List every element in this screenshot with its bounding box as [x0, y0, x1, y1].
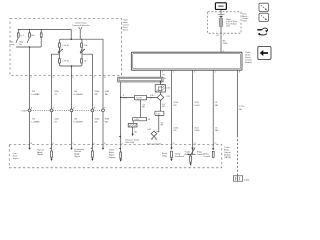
resistor: pot right upper 10k — [81, 43, 83, 47]
terminal arrow W2 — [50, 147, 52, 149]
svg-text:C: C — [94, 77, 96, 79]
wire: box top feed going right then down W5 — [81, 39, 103, 148]
resistor on W2 — [51, 148, 53, 151]
svg-text:2: 2 — [215, 72, 216, 74]
wire branch from X1 down — [140, 100, 142, 117]
wire W1 from switch down — [29, 47, 31, 148]
lamp L2 — [29, 33, 31, 37]
svg-text:5: 5 — [162, 71, 164, 73]
svg-text:D: D — [73, 108, 75, 110]
ground arrow W4 — [91, 157, 93, 158]
svg-text:Wire Coil): Wire Coil) — [125, 142, 134, 144]
wire: left wiper out of box to W2 — [52, 54, 60, 148]
svg-text:D-BU: D-BU — [195, 105, 200, 107]
dashed box: trailer brake controller module — [9, 145, 222, 168]
svg-text:G-301: G-301 — [244, 179, 250, 181]
label: pin 5 / IN / 40 — [162, 71, 167, 80]
svg-text:GY: GY — [54, 94, 58, 96]
terminal arrow W4 — [90, 147, 92, 149]
wire down from S1 — [160, 100, 162, 111]
label: TBCM — [224, 147, 231, 159]
inline connector X120 dotted row — [27, 109, 105, 112]
label: Interior Lamps Dimming Subfunction — [73, 21, 90, 27]
label: wire codes lower band left wires — [32, 119, 110, 124]
fuse F1 (gray body) — [220, 17, 222, 18]
dashed box: trailer brake control panel switch enclosure — [10, 19, 121, 76]
battery plates symbol — [218, 13, 225, 15]
svg-text:(+ 4: (+ 4 — [20, 35, 23, 37]
label: relay feedback — [162, 152, 191, 158]
ground arrow W7 — [170, 159, 172, 161]
svg-text:B: B — [104, 77, 106, 79]
svg-text:(4 b: (4 b — [31, 35, 34, 37]
svg-text:F: F — [31, 77, 33, 79]
label: trailer brake control panel switch — [123, 19, 129, 31]
svg-text:X120: X120 — [21, 110, 27, 112]
module box: trailer brake power control — [131, 52, 242, 70]
label: pin letters below dashed box — [31, 77, 107, 79]
svg-text:WH: WH — [105, 121, 109, 123]
wire W9 from module down — [212, 70, 214, 148]
switch blade on W8 — [191, 148, 193, 150]
label: relay ground — [204, 153, 211, 157]
svg-text:E: E — [94, 108, 96, 110]
icon: zoom button 2 — [259, 13, 268, 21]
wire: lower bus joining switch outputs — [16, 46, 41, 48]
lamp L3 — [40, 33, 42, 37]
svg-text:L-GN/BK: L-GN/BK — [32, 121, 41, 123]
splice diamond S1 — [159, 92, 161, 94]
icon: back button — [258, 46, 271, 59]
svg-text:40: 40 — [164, 78, 167, 80]
svg-text:BN: BN — [95, 121, 98, 123]
resistor on W4 — [91, 148, 93, 151]
lamp L1 — [17, 33, 19, 37]
svg-text:1 RD: 1 RD — [166, 96, 171, 98]
resistor on W9 — [212, 151, 214, 157]
label: trailer connector — [147, 143, 162, 146]
icon: zoom button 1 — [259, 3, 268, 11]
wire: feed bus at top of switch — [18, 28, 71, 30]
svg-text:4k: 4k — [84, 61, 86, 63]
label: wire codes upper band left wires — [32, 91, 128, 99]
svg-text:B: B — [31, 108, 33, 110]
terminal arrow W1 — [28, 148, 30, 150]
svg-text:BK: BK — [161, 125, 164, 127]
svg-text:Trailer Connector: Trailer Connector — [147, 143, 162, 146]
svg-text:IN: IN — [163, 75, 166, 77]
svg-text:Lamp: Lamp — [10, 44, 15, 46]
svg-text:Signal: Signal — [37, 154, 43, 156]
svg-text:WH: WH — [105, 94, 109, 96]
connector flat box X2 — [133, 117, 147, 121]
resistor on W6 end — [120, 148, 122, 152]
terminal arrow W7 — [170, 148, 172, 150]
resistor on W8 — [190, 154, 192, 156]
wire W6 from bar down — [120, 82, 122, 148]
svg-text:Signal: Signal — [74, 156, 80, 158]
label: S1 — [150, 95, 154, 99]
fork to trailer connector pins — [152, 136, 154, 138]
connector box X3 — [155, 111, 164, 115]
switch blade S1b — [27, 38, 29, 43]
svg-text:4R: 4R — [148, 119, 151, 121]
terminal arrow W5 — [102, 148, 104, 150]
wiper arrow right — [80, 49, 84, 53]
svg-text:BK: BK — [134, 131, 137, 133]
svg-text:BN: BN — [95, 94, 98, 96]
svg-text:F: F — [105, 108, 107, 110]
svg-text:S-42: S-42 — [147, 129, 151, 131]
svg-text:C3: C3 — [194, 143, 196, 145]
svg-text:D: D — [94, 143, 96, 145]
svg-text:Delay: Delay — [162, 156, 167, 158]
label: right wire codes lower — [174, 128, 219, 133]
svg-text:D: D — [73, 77, 75, 79]
svg-text:BN: BN — [215, 130, 218, 132]
wire to hatched connector C2 — [132, 121, 134, 124]
svg-text:Switch: Switch — [123, 28, 128, 31]
svg-text:BN: BN — [215, 105, 218, 107]
svg-text:4: 4 — [173, 72, 174, 74]
svg-text:hood: hood — [242, 21, 246, 23]
svg-text:2140: 2140 — [223, 43, 228, 45]
resistor: pot right lower — [81, 59, 83, 63]
svg-text:RD: RD — [174, 105, 177, 107]
wiper blade left — [58, 48, 60, 53]
resistor: pot left lower — [59, 59, 61, 63]
svg-text:X4: X4 — [216, 35, 219, 37]
label: low gear signal — [13, 153, 19, 160]
wire W7 from module down — [171, 70, 173, 147]
svg-text:BK: BK — [239, 109, 242, 111]
wire: right wiper out of box to W4 — [82, 54, 92, 148]
svg-text:BK: BK — [162, 106, 165, 108]
ground arrow W8 — [189, 163, 191, 165]
wire from S1 left to W6 junction — [121, 96, 158, 98]
svg-text:BK: BK — [142, 107, 145, 109]
wire: pot box bottom exit W3 — [71, 66, 73, 148]
svg-text:Dimming Subfunction: Dimming Subfunction — [73, 24, 90, 27]
label: chassis trailer wire coil — [125, 139, 139, 143]
label: right wire codes upper — [174, 102, 246, 111]
connector box X1 on horizontal wire — [134, 95, 146, 100]
potentiometer box (gain / apply) — [59, 39, 82, 66]
svg-text:D-GN/WH: D-GN/WH — [74, 94, 84, 96]
wire: stub to lamp L1 — [17, 29, 19, 33]
icon: curved arrow — [257, 28, 268, 35]
svg-text:D-BU: D-BU — [195, 130, 200, 132]
svg-text:1: 1 — [223, 35, 225, 37]
svg-text:Interior Lamps: Interior Lamps — [75, 21, 86, 24]
wire W10 from module down (becomes dashed) — [236, 70, 238, 135]
wire: stub to lamp L2 — [29, 29, 31, 33]
svg-text:C2: C2 — [173, 143, 175, 145]
svg-text:L-GN/BK: L-GN/BK — [32, 94, 41, 96]
label: manual apply signal — [37, 149, 44, 156]
dashed box: underhood fuse block — [208, 12, 241, 33]
svg-text:Module: Module — [245, 62, 252, 64]
label: switch texts — [10, 35, 35, 46]
svg-text:6: 6 — [194, 72, 195, 74]
wiper arrow left — [58, 49, 62, 53]
svg-text:X-42: X-42 — [156, 113, 160, 115]
connector C2 (hatched) — [128, 123, 137, 127]
junction dot on lower bus — [29, 46, 31, 48]
svg-text:10k: 10k — [84, 45, 87, 47]
svg-text:Voltage: Voltage — [109, 156, 117, 159]
wire: fuse output down to module — [220, 27, 222, 53]
wire from X3 down to S2 — [156, 115, 158, 131]
label: fuse name — [226, 19, 237, 28]
wire W8 from module down — [192, 70, 194, 154]
label: module name — [245, 52, 252, 64]
svg-text:X 40: X 40 — [166, 88, 170, 90]
terminal arrow W9 — [212, 148, 214, 150]
svg-text:D-GN/WH: D-GN/WH — [74, 121, 84, 123]
junction: bus corner into pot box top — [70, 29, 72, 39]
svg-text:GY: GY — [54, 121, 58, 123]
label: trailer brake signal voltage — [109, 150, 117, 159]
splice diamond S2 — [151, 131, 157, 136]
label: permanent manual apply signal — [74, 148, 84, 158]
label: C1 — [166, 88, 171, 99]
svg-text:X-305: X-305 — [134, 119, 139, 121]
svg-text:Feedback: Feedback — [175, 156, 184, 158]
label: module bottom pins — [173, 72, 241, 74]
svg-text:B: B — [239, 72, 241, 74]
label: pin and wire code RD 2140 — [216, 35, 228, 53]
wire: stub to lamp L3 — [40, 29, 42, 33]
label: pot resistor values — [62, 45, 87, 63]
svg-text:F: F — [122, 143, 123, 145]
svg-text:Signal: Signal — [13, 158, 19, 160]
svg-text:1.2k W: 1.2k W — [62, 61, 68, 63]
wiper blade right — [80, 48, 82, 53]
switch blade S1a — [16, 38, 18, 43]
svg-text:E: E — [53, 77, 55, 79]
wire WA from module pin 5 down through bar — [159, 70, 161, 84]
wire from battery icon down — [220, 10, 222, 14]
label: fuse block underhood — [242, 14, 248, 23]
svg-text:Ground: Ground — [204, 156, 211, 158]
battery positive voltage icon — [215, 3, 226, 10]
svg-text:B: B — [53, 143, 55, 145]
label: relay control — [197, 151, 204, 155]
wire below C2 with terminal arrow — [132, 127, 134, 134]
label: pins above TBCM edge — [31, 142, 217, 145]
connector C1 (hatched) — [155, 85, 165, 92]
wire from lamp L3 down to bus — [40, 37, 42, 47]
ground G301 — [233, 176, 242, 181]
ground arrow W2 — [51, 157, 53, 158]
arrow marker on wire W6 — [119, 136, 121, 138]
svg-text:(TBCM): (TBCM) — [224, 157, 231, 159]
leader line from dimming label to potentiometer box — [79, 27, 82, 39]
svg-text:RD: RD — [174, 130, 177, 132]
svg-text:Sw: Sw — [19, 44, 22, 46]
svg-text:X-108: X-108 — [136, 98, 142, 100]
svg-text:1.2k W: 1.2k W — [62, 45, 68, 47]
label: X120 connector — [21, 108, 106, 113]
svg-text:C1: C1 — [214, 143, 216, 145]
terminal arrow W3 — [70, 148, 72, 150]
svg-text:C: C — [53, 108, 55, 110]
splice bar — [118, 77, 163, 82]
resistor: pot left upper 1.2k — [59, 43, 61, 47]
resistor on W7 — [171, 151, 173, 157]
